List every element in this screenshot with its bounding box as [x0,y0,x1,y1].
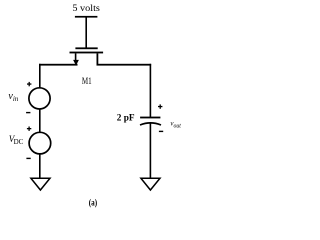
svg-text:DC: DC [14,138,24,146]
source vin circle [29,88,50,109]
svg-text:M1: M1 [82,77,92,87]
plus sign of VDC source [27,127,31,131]
transistor M1 channel bar [70,52,104,54]
right ground [141,178,160,190]
svg-text:2 pF: 2 pF [117,113,135,123]
wire drain to right corner [97,64,152,66]
plus sign of vin source [27,82,31,86]
source VDC circle [29,132,51,154]
transistor M1 drain leg [97,53,99,65]
transistor M1 gate bar [75,47,97,49]
svg-text:5 volts: 5 volts [72,3,100,14]
wire right rail down to capacitor [150,64,152,117]
capacitor C top plate [140,117,160,119]
wire between sources [39,109,41,132]
plus sign at vout [158,104,162,108]
wire left rail down to vin source [39,64,41,88]
minus sign below vout plus [159,131,163,132]
supply terminal bar [75,16,98,18]
transistor M1 source leg with arrow [73,53,79,65]
svg-text:(a): (a) [89,197,97,208]
wire capacitor to right ground [150,124,152,179]
wire VDC to left ground [39,154,41,178]
left ground [31,178,50,190]
minus sign below vin source [26,112,30,113]
wire gate lead [85,18,87,48]
minus sign below VDC source [26,158,30,159]
capacitor C bottom curved plate [140,123,161,125]
wire source to left corner [39,64,78,66]
